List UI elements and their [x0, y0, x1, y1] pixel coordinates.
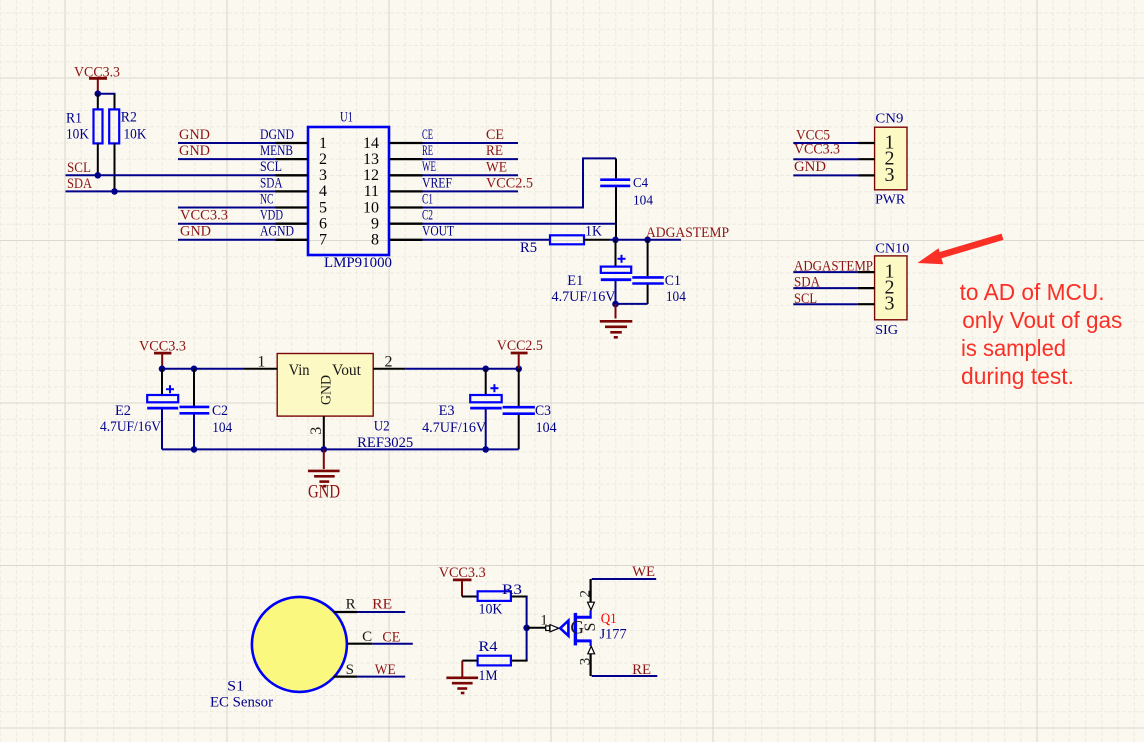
wire (VCC3.3 to R3) [462, 596, 478, 598]
svg-text:MENB: MENB [260, 143, 293, 159]
svg-text:U1: U1 [340, 110, 353, 126]
pin 2 (CN9) [859, 148, 895, 170]
junction (R5 / E1) [612, 237, 619, 244]
svg-text:13: 13 [363, 151, 379, 168]
svg-text:2: 2 [578, 590, 594, 598]
svg-text:R2: R2 [121, 110, 137, 126]
pin 12 (WE) [363, 159, 436, 184]
wire GND (CN9) [793, 174, 858, 176]
wire ADGASTEMP (CN10) [793, 271, 857, 273]
svg-text:C1: C1 [422, 191, 433, 207]
capacitor C2 [180, 369, 233, 450]
pin 7 (AGND) [260, 224, 327, 249]
junction (gate node) [523, 625, 530, 632]
wire WE (S1) [357, 676, 405, 678]
junction (VCC3.3 / E2) [159, 366, 166, 373]
svg-text:E3: E3 [439, 403, 455, 419]
svg-text:S1: S1 [227, 679, 244, 695]
svg-text:C4: C4 [633, 176, 648, 191]
svg-text:during test.: during test. [961, 363, 1074, 389]
pin 2 (CN10) [858, 277, 895, 299]
svg-text:104: 104 [633, 193, 653, 208]
wire (GND to AGND) [178, 239, 276, 241]
wire (E1 to C1 bottom) [616, 303, 648, 305]
wire (R5 to ADGASTEMP) [584, 239, 681, 241]
pin 1 (U2 Vin) [244, 353, 277, 370]
svg-text:SCL: SCL [260, 159, 282, 175]
pin S (S1) [334, 662, 357, 678]
svg-text:S: S [346, 662, 354, 678]
svg-text:SDA: SDA [67, 176, 93, 192]
pin 3 (U2 GND) [308, 416, 325, 449]
wire RE [423, 158, 519, 160]
svg-text:3: 3 [578, 658, 594, 666]
svg-text:VREF: VREF [422, 175, 452, 191]
svg-text:C1: C1 [665, 273, 681, 289]
wire WE [423, 174, 519, 176]
wire WE (Q1 drain) [592, 578, 657, 580]
pin 1 (DGND) [260, 127, 327, 152]
svg-text:VDD: VDD [260, 208, 283, 224]
junction (R2 / SDA) [111, 188, 118, 195]
svg-text:CE: CE [382, 630, 400, 646]
svg-text:11: 11 [364, 183, 379, 200]
pin 2 (U2 Vout) [373, 353, 405, 370]
svg-text:DGND: DGND [260, 127, 294, 143]
wire (GND to DGND) [178, 142, 276, 144]
wire (VCC3.3 to VDD) [178, 223, 276, 225]
svg-text:SDA: SDA [260, 175, 283, 191]
svg-text:EC Sensor: EC Sensor [210, 695, 273, 711]
svg-text:WE: WE [375, 662, 396, 678]
svg-text:C2: C2 [422, 208, 433, 224]
svg-text:WE: WE [632, 564, 655, 580]
wire SDA [66, 190, 277, 192]
svg-text:R: R [346, 596, 356, 612]
svg-text:14: 14 [363, 135, 379, 152]
wire SCL (CN10) [793, 303, 857, 305]
pin R (S1) [334, 596, 357, 612]
svg-text:6: 6 [319, 216, 327, 233]
pin 1 (CN10) [858, 261, 895, 283]
svg-text:RE: RE [632, 662, 651, 678]
sensor S1 (EC Sensor) [210, 597, 347, 711]
svg-text:Q1: Q1 [601, 611, 617, 627]
svg-text:VCC2.5: VCC2.5 [486, 175, 533, 191]
pin 14 (CE) [363, 127, 433, 152]
svg-text:VCC3.3: VCC3.3 [439, 565, 486, 581]
svg-text:VCC3.3: VCC3.3 [74, 65, 120, 81]
svg-text:R1: R1 [66, 111, 82, 127]
svg-text:is sampled: is sampled [961, 335, 1066, 361]
svg-text:RE: RE [422, 143, 433, 159]
resistor R4 [478, 639, 511, 684]
annotation text [960, 279, 1123, 389]
annotation arrow [917, 237, 1002, 264]
svg-text:SCL: SCL [67, 160, 91, 176]
wire RE (S1) [357, 611, 405, 613]
pin 3 (CN10) [858, 293, 895, 315]
pin 2 (MENB) [260, 143, 327, 168]
svg-text:10: 10 [363, 199, 379, 216]
wire (VCC3.3 to U2 Vin) [162, 368, 244, 370]
junction (VCC3.3 / R1 / R2) [95, 90, 102, 97]
pin 1 (CN9) [859, 132, 895, 154]
pin 3 (SCL) [260, 159, 327, 184]
transistor Q1 J177 [546, 579, 627, 676]
svg-text:3: 3 [885, 293, 895, 315]
svg-text:1K: 1K [585, 224, 602, 240]
svg-text:4.7UF/16V: 4.7UF/16V [422, 420, 487, 436]
junction (C2 top) [191, 366, 198, 373]
connector CN10 [875, 242, 910, 338]
ground (R4) [446, 661, 478, 693]
power VCC3.3 (top left) [74, 65, 120, 93]
junction (E3 top) [482, 366, 489, 373]
resistor R1 [66, 94, 103, 176]
svg-text:to AD of MCU.: to AD of MCU. [960, 279, 1105, 305]
svg-text:Vout: Vout [332, 362, 362, 379]
resistor R3 [478, 582, 522, 618]
wire RE (Q1 source) [592, 675, 658, 677]
svg-text:U2: U2 [374, 419, 390, 435]
pin 5 (NC) [260, 191, 327, 216]
svg-text:C3: C3 [535, 403, 551, 419]
svg-text:Vin: Vin [289, 362, 310, 379]
wire VCC5 [793, 142, 858, 144]
pin 9 (C2) [371, 208, 433, 233]
resistor R5 [520, 224, 602, 256]
wire (gate node to Q1 gate) [527, 627, 550, 629]
junction (C2 bottom) [191, 446, 198, 453]
svg-text:4.7UF/16V: 4.7UF/16V [552, 289, 617, 305]
capacitor E1 [552, 240, 632, 305]
wire (R4 to ground) [462, 660, 477, 662]
svg-text:VCC3.3: VCC3.3 [794, 142, 840, 158]
wire (NC pin5) [178, 207, 276, 209]
capacitor C1 [632, 240, 686, 305]
svg-text:10K: 10K [479, 602, 503, 618]
connector CN9 [875, 112, 907, 208]
junction (R1 / SCL) [95, 172, 102, 179]
wire VCC3.3 (CN9) [793, 158, 858, 160]
capacitor C3 [503, 369, 558, 450]
svg-text:12: 12 [363, 167, 379, 184]
svg-text:8: 8 [371, 232, 379, 249]
ground (E1/C1) [600, 304, 633, 337]
wire C1 (pin10 to C4) [423, 158, 617, 208]
svg-text:GND: GND [179, 143, 210, 159]
svg-text:9: 9 [371, 216, 379, 233]
svg-text:GND: GND [308, 481, 340, 502]
pin C (S1) [347, 629, 372, 645]
wire SDA (CN10) [793, 287, 857, 289]
wire (U2 Vout to VCC2.5) [405, 368, 519, 370]
junction (E1 / C1 / GND) [612, 301, 619, 308]
svg-text:NC: NC [260, 191, 274, 207]
svg-text:1: 1 [257, 353, 265, 370]
svg-text:10K: 10K [124, 126, 147, 142]
pin 6 (VDD) [260, 208, 327, 233]
svg-text:CE: CE [422, 127, 433, 143]
svg-text:AGND: AGND [260, 224, 294, 240]
svg-text:VCC3.3: VCC3.3 [139, 339, 186, 355]
svg-text:104: 104 [666, 289, 687, 305]
ground (U2) [308, 449, 340, 502]
svg-text:2: 2 [385, 353, 393, 370]
svg-text:CN10: CN10 [875, 242, 909, 257]
wire CE (S1) [372, 643, 413, 645]
wire VREF [423, 190, 519, 192]
wire SCL [66, 174, 277, 176]
pin 3 (CN9) [859, 164, 895, 186]
wire VOUT (pin8 to R5) [423, 239, 552, 241]
svg-text:7: 7 [319, 232, 327, 249]
svg-text:4: 4 [319, 183, 327, 200]
svg-text:1M: 1M [479, 668, 498, 684]
pin 4 (SDA) [260, 175, 327, 200]
wire (GND to MENB) [178, 158, 276, 160]
svg-text:GND: GND [180, 223, 211, 239]
power VCC2.5 [497, 338, 543, 369]
svg-text:CE: CE [486, 127, 504, 143]
svg-text:4.7UF/16V: 4.7UF/16V [100, 419, 161, 435]
svg-text:3: 3 [885, 164, 895, 186]
svg-text:E1: E1 [567, 273, 583, 289]
wire (R3 to gate node) [511, 597, 528, 661]
wire (U2 ground rail) [162, 448, 519, 450]
wire (C2 net to VOUT net) [615, 224, 617, 240]
svg-text:E2: E2 [115, 403, 131, 419]
junction (C3 top / VCC2.5) [515, 366, 522, 373]
pin 10 (C1) [363, 191, 433, 216]
svg-text:C2: C2 [212, 403, 228, 419]
svg-text:3: 3 [308, 427, 325, 435]
power VCC3.3 (U2) [139, 339, 186, 369]
capacitor C4 [600, 158, 653, 223]
svg-text:104: 104 [212, 420, 233, 436]
wire CE [423, 142, 519, 144]
svg-text:S: S [582, 623, 599, 632]
svg-text:R4: R4 [479, 639, 499, 655]
pin 13 (RE) [363, 143, 433, 168]
svg-text:2: 2 [319, 151, 327, 168]
IC U2 REF3025 body [277, 354, 413, 451]
svg-text:R5: R5 [520, 240, 537, 256]
svg-text:3: 3 [319, 167, 327, 184]
svg-text:GND: GND [179, 127, 210, 143]
wire C2 (pin9 to C4) [423, 223, 618, 225]
capacitor E2 [100, 369, 178, 450]
svg-text:C: C [362, 629, 372, 645]
svg-text:VOUT: VOUT [422, 224, 454, 240]
svg-text:CN9: CN9 [875, 112, 903, 127]
wire (VCC3.3 to R2 jog) [98, 93, 116, 95]
junction (E3 bottom) [482, 446, 489, 453]
capacitor E3 [422, 369, 502, 450]
pin 11 (VREF) [364, 175, 452, 200]
svg-text:VCC2.5: VCC2.5 [497, 338, 543, 354]
op-amp U1 LMP91000 body [308, 110, 392, 272]
svg-text:only Vout of gas: only Vout of gas [962, 307, 1122, 333]
svg-text:ADGASTEMP: ADGASTEMP [646, 225, 729, 241]
svg-text:VCC3.3: VCC3.3 [180, 207, 228, 223]
svg-text:10K: 10K [66, 126, 89, 142]
svg-text:RE: RE [486, 143, 503, 159]
svg-text:WE: WE [422, 159, 436, 175]
pin 8 (VOUT) [371, 224, 454, 249]
junction (C1 cap) [644, 237, 651, 244]
svg-text:1: 1 [319, 135, 327, 152]
svg-text:LMP91000: LMP91000 [324, 255, 392, 271]
svg-text:WE: WE [486, 159, 507, 175]
svg-text:SIG: SIG [875, 323, 898, 338]
junction (U2 pin3 / rail) [321, 446, 328, 453]
svg-text:5: 5 [319, 199, 327, 216]
svg-text:J177: J177 [600, 627, 627, 643]
power VCC3.3 (R3) [439, 565, 486, 597]
svg-text:PWR: PWR [875, 193, 906, 208]
svg-text:RE: RE [372, 597, 392, 613]
svg-text:GND: GND [794, 159, 826, 175]
svg-text:104: 104 [536, 420, 558, 436]
svg-text:GND: GND [319, 375, 335, 405]
resistor R2 [109, 94, 147, 192]
